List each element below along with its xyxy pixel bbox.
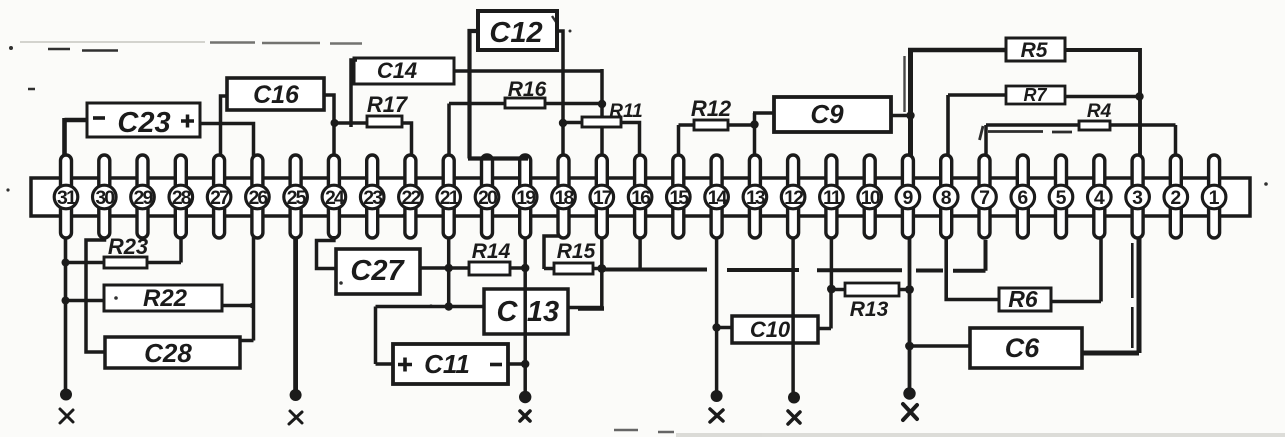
resistor R12	[691, 96, 732, 130]
terminal strip body	[31, 178, 1250, 216]
svg-text:C27: C27	[350, 255, 405, 287]
svg-text:R17: R17	[367, 92, 409, 117]
wire terminal 12 ground drop through C10	[791, 237, 795, 392]
resistor R23	[104, 234, 148, 268]
svg-text:R13: R13	[850, 298, 889, 321]
terminal 16 lug	[635, 155, 646, 238]
terminal 18 lug	[558, 155, 569, 238]
svg-text:C14: C14	[377, 58, 417, 83]
capacitor C27	[336, 249, 420, 294]
wire R7 left to terminal 8	[948, 95, 1006, 156]
wire R5 right to terminal 3 riser	[1064, 48, 1140, 156]
terminal 30 lug	[99, 155, 110, 238]
wire terminal 14 ground drop	[715, 237, 719, 391]
ground at terminal 25	[289, 389, 302, 424]
svg-text:1: 1	[1209, 187, 1220, 209]
svg-text:10: 10	[861, 187, 881, 209]
terminal 6 number circle	[1011, 185, 1035, 209]
terminal 26 lug	[252, 155, 263, 238]
wire node 13 up to capacitor C9 left	[753, 113, 775, 156]
svg-text:11: 11	[823, 187, 842, 209]
svg-text:13: 13	[746, 187, 766, 209]
terminal 16 number circle	[628, 185, 652, 209]
terminal 21 number circle	[437, 185, 461, 209]
terminal 17 number circle	[590, 185, 614, 209]
wire R6 right to terminal 4	[1050, 237, 1101, 302]
capacitor C10	[732, 316, 818, 343]
wire C27 right to R14 left	[419, 266, 469, 270]
wire C9 right to terminal 9 line	[890, 114, 910, 118]
stray print smudge under R4 wire	[980, 126, 1073, 140]
terminal 13 lug	[749, 155, 760, 238]
capacitor C6	[970, 328, 1082, 368]
svg-text:15: 15	[669, 187, 689, 209]
terminal 8 lug	[941, 155, 952, 238]
svg-text:14: 14	[708, 187, 728, 209]
svg-text:27: 27	[210, 187, 229, 209]
node at terminal 24 / C16 / C14 / R17	[331, 119, 339, 127]
wire terminal 31 ground drop	[64, 237, 68, 390]
wire terminal 9 riser	[905, 50, 911, 156]
wire C10 right riser to node 11	[818, 289, 831, 329]
svg-text:25: 25	[287, 187, 307, 209]
wire R11 right to terminal 16	[621, 123, 640, 157]
terminal 13 number circle	[743, 185, 767, 209]
svg-text:12: 12	[784, 187, 804, 209]
wire C14 left down to node at terminal 24	[351, 60, 357, 127]
capacitor C28	[105, 337, 240, 368]
svg-text:R23: R23	[108, 234, 148, 259]
capacitor C13	[484, 289, 568, 334]
terminal 2 lug	[1170, 155, 1181, 238]
wire C12 right to node above terminal 18	[556, 31, 563, 156]
wire C6 right to terminal 3	[1081, 237, 1139, 353]
wire R16 right to node on terminal 17 line	[545, 102, 602, 106]
node terminal 31 / R22	[62, 297, 70, 305]
svg-text:30: 30	[95, 187, 115, 209]
wire R4 right to terminal 2	[1110, 125, 1176, 156]
terminal 9 lug	[902, 155, 913, 238]
terminal 25 number circle	[284, 185, 308, 209]
terminal 10 number circle	[858, 185, 882, 209]
wire R23 right to terminal 28	[147, 237, 181, 263]
node C6 / terminal 9	[905, 342, 914, 351]
long bus wire terminal 17/16 to terminal 7 (broken print)	[602, 240, 986, 271]
wire C23 left to terminal 31	[65, 118, 89, 156]
terminal 4 lug	[1094, 155, 1105, 238]
terminal 10 lug	[864, 155, 875, 238]
svg-text:2: 2	[1170, 187, 1181, 209]
wire terminal 19 ground drop through C13	[523, 237, 527, 391]
svg-text:C23: C23	[117, 107, 170, 139]
svg-text:4: 4	[1094, 187, 1105, 209]
terminal 15 number circle	[667, 185, 691, 209]
wire C12 left to terminal 19	[468, 31, 528, 159]
terminal 31 number circle	[54, 185, 78, 209]
wire R13 right to terminal 9 line	[899, 288, 910, 292]
svg-text:R12: R12	[691, 96, 732, 121]
wire R6 left to terminal 8	[946, 237, 999, 300]
svg-text:31: 31	[57, 187, 77, 209]
terminal 17 lug	[596, 155, 607, 238]
svg-text:24: 24	[325, 187, 345, 209]
wire terminal 21 drop	[447, 237, 451, 307]
terminal 19 number circle	[513, 185, 537, 209]
resistor R14	[469, 240, 511, 275]
terminal 24 number circle	[322, 185, 346, 209]
terminal 18 number circle	[552, 185, 576, 209]
resistor R22	[104, 285, 222, 312]
node R13 / terminal 9	[905, 285, 914, 294]
terminal 26 number circle	[246, 185, 270, 209]
wire R15 right to terminal 17 line	[593, 267, 602, 271]
svg-text:19: 19	[516, 187, 536, 209]
svg-text:C: C	[497, 296, 519, 328]
wire C6 left to terminal 9 line	[910, 344, 971, 348]
terminal 11 number circle	[820, 185, 844, 209]
svg-text:9: 9	[902, 187, 913, 209]
svg-text:R4: R4	[1087, 101, 1112, 122]
terminal 23 lug	[367, 155, 378, 238]
svg-text:R6: R6	[1008, 286, 1038, 312]
wire C13 left / C11 riser / terminal 21 node	[376, 307, 485, 365]
terminal 2 number circle	[1164, 185, 1188, 209]
svg-text:16: 16	[631, 187, 651, 209]
node C11 / terminal 19	[521, 360, 529, 368]
node R5 / R7 / terminal 3	[1135, 92, 1143, 100]
capacitor C9	[774, 97, 891, 132]
ground at terminal 14	[710, 390, 723, 422]
svg-text:C16: C16	[253, 81, 300, 109]
terminal 20 number circle	[475, 185, 499, 209]
svg-text:R15: R15	[557, 240, 596, 263]
node R12 / C9 / terminal 13	[750, 120, 758, 128]
terminal 25 lug	[290, 155, 301, 238]
svg-text:20: 20	[478, 187, 498, 209]
node terminal 11 / R13 / C10	[827, 285, 836, 294]
svg-text:6: 6	[1017, 187, 1028, 209]
ground at terminal 9	[903, 387, 917, 420]
svg-text:3: 3	[1132, 187, 1143, 209]
svg-text:26: 26	[248, 187, 268, 209]
wire R22 right and C28 right to terminal 26	[221, 237, 254, 341]
terminal 1 number circle	[1202, 185, 1226, 209]
terminal 6 lug	[1017, 155, 1028, 238]
wire R22 left to terminal 31 line	[66, 299, 105, 303]
terminal 5 lug	[1056, 155, 1067, 238]
wire terminal 16 drop	[638, 237, 642, 270]
node terminal 31 / R23	[62, 259, 70, 267]
terminal 30 number circle	[93, 185, 117, 209]
svg-text:C6: C6	[1005, 333, 1040, 363]
wire C28 left to terminal 30	[86, 237, 105, 352]
wire C10 left to terminal 14 line	[717, 326, 732, 330]
wire R14 right to terminal 19 line	[510, 266, 525, 270]
resistor R6	[999, 286, 1051, 312]
capacitor C14	[354, 58, 454, 84]
svg-text:R22: R22	[143, 285, 188, 312]
resistor R5	[1006, 38, 1065, 62]
svg-text:R14: R14	[472, 240, 511, 263]
terminal 5 number circle	[1049, 185, 1073, 209]
node R15 / terminal 17	[597, 264, 606, 273]
wire R16 left to terminal 21	[449, 104, 505, 157]
terminal 21 lug	[443, 155, 454, 238]
node R14 / terminal 19	[521, 264, 529, 272]
terminal 4 number circle	[1088, 185, 1112, 209]
terminal 22 lug	[405, 155, 416, 238]
wire R23 left to terminal 31 line	[66, 261, 105, 265]
terminal 14 lug	[711, 155, 722, 238]
terminal 8 number circle	[934, 185, 958, 209]
svg-text:22: 22	[401, 187, 421, 209]
terminal 11 lug	[826, 155, 837, 238]
resistor R13	[845, 283, 899, 321]
svg-text:R5: R5	[1021, 39, 1048, 62]
svg-text:C9: C9	[810, 99, 844, 129]
terminal 29 lug	[137, 155, 148, 238]
capacitor C16	[227, 78, 324, 110]
terminal 19 lug	[520, 155, 531, 238]
wire terminal 25 ground drop	[293, 237, 298, 390]
terminal 27 number circle	[207, 185, 231, 209]
resistor R17	[367, 92, 409, 127]
svg-text:5: 5	[1056, 187, 1067, 209]
wire R5 left to terminal 9 riser	[908, 48, 1006, 52]
resistor R7	[1006, 85, 1065, 105]
wire R13 left from node 11	[831, 288, 845, 292]
wire C27 left to terminal 24	[317, 236, 337, 269]
terminal 20 lug	[482, 155, 493, 238]
wire terminal 11 drop	[830, 237, 834, 289]
terminal 7 lug	[979, 155, 990, 238]
terminal 28 lug	[175, 155, 186, 238]
node C10 / terminal 14	[712, 323, 720, 331]
terminal 22 number circle	[399, 185, 423, 209]
svg-text:28: 28	[172, 187, 192, 209]
svg-text:13: 13	[527, 296, 559, 328]
terminal 9 number circle	[896, 185, 920, 209]
terminal 24 lug	[328, 155, 339, 238]
terminal 3 number circle	[1126, 185, 1150, 209]
wire R12 left to terminal 15	[679, 125, 695, 156]
capacitor C12	[478, 11, 557, 50]
wire R17 right to terminal 22	[402, 123, 412, 156]
terminal 15 lug	[673, 155, 684, 238]
resistor R4	[1079, 101, 1112, 130]
terminal 3 lug	[1132, 155, 1143, 238]
capacitor C11	[393, 344, 508, 384]
wire R11 left to node terminal 18	[563, 121, 582, 125]
terminal 14 number circle	[705, 185, 729, 209]
wire terminal 17 to C13 right	[567, 237, 604, 309]
terminal 12 number circle	[781, 185, 805, 209]
svg-text:29: 29	[134, 187, 154, 209]
node R22 / C28 riser	[249, 303, 254, 308]
wire R15 left to terminal 18	[544, 236, 559, 269]
terminal 7 number circle	[973, 185, 997, 209]
ground at terminal 19	[519, 391, 531, 421]
terminal 31 lug	[61, 155, 72, 238]
wire R17 left to node 24	[334, 121, 367, 125]
wire C11 right to terminal 19 line	[507, 362, 525, 366]
ground at terminal 31	[60, 389, 73, 424]
wire R12 right to node terminal 13	[728, 123, 755, 127]
wire C16 left to terminal 27	[221, 96, 229, 156]
terminal 28 number circle	[169, 185, 193, 209]
wire R7 right to node on terminal 3 riser	[1065, 95, 1140, 99]
svg-text:C12: C12	[489, 17, 542, 49]
svg-text:21: 21	[440, 187, 460, 209]
terminal 29 number circle	[131, 185, 155, 209]
svg-text:18: 18	[555, 187, 575, 209]
wire C23 right to terminal 27 node and terminal 26	[199, 124, 254, 157]
resistor R15	[554, 240, 596, 274]
resistor R16	[505, 78, 547, 108]
terminal 1 lug	[1209, 155, 1220, 238]
ground at terminal 12	[788, 392, 800, 425]
node terminal 21 / C27-R14 wire	[445, 264, 453, 272]
node terminal 21 bottom	[445, 302, 453, 310]
svg-text:C11: C11	[424, 349, 470, 379]
node R16 / C14 / terminal 17	[598, 100, 606, 108]
terminal 27 lug	[214, 155, 225, 238]
node C12 / R11 / terminal 18	[559, 119, 567, 127]
capacitor C23	[87, 103, 200, 139]
wire R4 left to terminal 7	[986, 125, 1079, 156]
wire C16 right to terminal 24	[323, 95, 334, 156]
terminal 12 lug	[788, 155, 799, 238]
svg-text:7: 7	[979, 187, 990, 209]
svg-text:C28: C28	[144, 338, 192, 368]
svg-text:R7: R7	[1023, 85, 1047, 105]
wire C14 right to terminal 17	[453, 69, 602, 156]
svg-text:R16: R16	[508, 78, 547, 101]
resistor R11	[582, 101, 643, 127]
svg-text:17: 17	[593, 187, 612, 209]
svg-text:C10: C10	[750, 317, 791, 342]
terminal 23 number circle	[360, 185, 384, 209]
svg-text:8: 8	[941, 187, 952, 209]
node C9 / R5 / terminal 9	[906, 111, 914, 119]
svg-text:R11: R11	[609, 101, 642, 122]
wire terminal 9 ground drop	[908, 237, 912, 388]
svg-text:23: 23	[363, 187, 383, 209]
